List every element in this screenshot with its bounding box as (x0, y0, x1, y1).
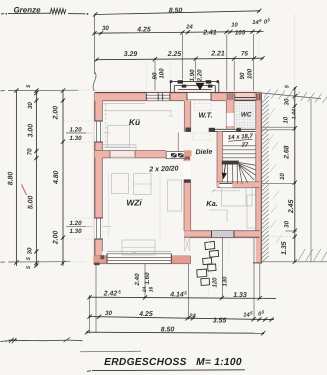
svg-text:90: 90 (151, 72, 158, 79)
window left lower (1.20/1.30) (94, 218, 103, 239)
svg-text:100: 100 (247, 68, 254, 79)
svg-text:Ka.: Ka. (206, 199, 218, 208)
hatch marks bottom band (298, 249, 327, 261)
dimension row 8.50 (top) (95, 11, 260, 15)
extension lines below building (95, 264, 97, 333)
wall stair west (217, 131, 223, 187)
wall wzi/ka divider with door (184, 158, 191, 230)
wzi furniture (109, 172, 182, 255)
svg-text:30: 30 (105, 310, 112, 317)
line above title (80, 350, 141, 353)
svg-text:3.55: 3.55 (213, 317, 227, 324)
sparse hatch marks middle (268, 108, 282, 243)
left chain 2 (5/30/3.00/70/5.00/30/5) (35, 90, 37, 266)
svg-text:1.35: 1.35 (281, 241, 288, 255)
dimension row 3 (3.29 / 2.25 / 2.21 / 75) (96, 58, 263, 60)
svg-text:100: 100 (158, 68, 165, 79)
svg-text:1.33: 1.33 (233, 292, 247, 299)
chimney 2x20/20 (166, 152, 189, 159)
svg-text:130: 130 (222, 276, 229, 287)
ka south window (grey) (212, 231, 235, 237)
svg-text:27: 27 (240, 141, 248, 148)
step blocks (178, 80, 183, 83)
svg-text:30: 30 (102, 25, 109, 32)
window dim 1.20/1.30 (lower left window) (66, 225, 86, 227)
svg-text:24: 24 (188, 312, 196, 319)
hatched strip along right wall (262, 96, 269, 262)
kitchen window in top wall (146, 93, 170, 100)
corner tint top-left (95, 93, 103, 101)
sw corner accents (94, 263, 99, 266)
neighbour edge vertical line (310, 99, 312, 262)
left chain 3 (2.00/4.80/2.00) (62, 90, 64, 266)
svg-text:10: 10 (283, 116, 290, 123)
wc/stair top edge double line (209, 128, 256, 130)
opening kitchen-wzi (110, 151, 135, 158)
svg-text:2.41: 2.41 (202, 30, 217, 37)
dimension row B (30/4.25/24/3.55/145/05) (89, 317, 274, 320)
right chain (5/30/10/1.44/2.68/10/2.45/30/1.35) (294, 88, 296, 262)
svg-text:2.20: 2.20 (197, 69, 204, 83)
svg-text:10: 10 (231, 21, 238, 28)
svg-text:2.45: 2.45 (288, 200, 295, 215)
svg-text:WC: WC (241, 112, 252, 119)
boundary squiggle (50, 9, 66, 15)
dimension row C (8.50 bottom) (87, 332, 264, 333)
stair lower flight (228, 165, 238, 185)
svg-text:10: 10 (279, 173, 286, 180)
stair up arrow (224, 165, 225, 174)
hatch marks top band (264, 89, 327, 103)
diele mat (193, 133, 210, 140)
ka door dim line (214, 190, 241, 192)
red pencil mark (22, 185, 27, 196)
dimension row 2 (4.25 / 24 / 2.41 / 10 / 1.05) (94, 32, 264, 34)
corner tint south-west (94, 256, 108, 263)
wzi south window (107, 254, 171, 264)
svg-text:90: 90 (239, 72, 246, 79)
svg-text:4.25: 4.25 (138, 311, 153, 318)
svg-text:30: 30 (27, 247, 34, 254)
wall top exterior (95, 93, 261, 101)
svg-text:1.20: 1.20 (69, 220, 82, 227)
svg-text:1.90: 1.90 (189, 69, 196, 82)
wf entry mat (195, 104, 212, 111)
svg-text:1.60: 1.60 (144, 272, 151, 285)
entrance steps (171, 80, 219, 82)
wall bottom ka exterior (184, 231, 260, 238)
svg-text:24: 24 (185, 24, 193, 31)
svg-text:8.80: 8.80 (7, 172, 14, 186)
wall wf/kitchen divider (184, 101, 190, 132)
svg-text:120: 120 (212, 277, 219, 288)
ground line bottom right (260, 261, 327, 263)
svg-text:Kü: Kü (129, 117, 140, 127)
left chains bottom connector (8, 261, 70, 263)
extension lines from top rows to building (154, 61, 156, 93)
svg-text:1.20: 1.20 (69, 127, 82, 134)
svg-text:1.30: 1.30 (69, 228, 82, 235)
wall wf/wc divider (226, 101, 234, 129)
boundary line Grenze (top) (1, 13, 4, 15)
svg-text:2.21: 2.21 (210, 51, 225, 58)
wall kitchen/wzi with opening (95, 151, 166, 158)
svg-text:24: 24 (142, 287, 148, 294)
wc door opening (227, 113, 234, 126)
svg-text:4.14: 4.14 (169, 292, 184, 299)
wc window band with hatch (235, 93, 254, 101)
svg-text:30: 30 (283, 98, 290, 105)
ka furniture (209, 188, 256, 228)
window dim 1.20/1.30 (upper left window) (66, 132, 86, 134)
svg-text:2.25: 2.25 (167, 51, 182, 58)
svg-text:5.00: 5.00 (27, 196, 34, 210)
wall ka north (stair south) with door (217, 182, 260, 188)
svg-text:3.00: 3.00 (27, 124, 34, 138)
svg-text:4.80: 4.80 (53, 170, 60, 185)
pink block right of chimney (184, 150, 191, 156)
wall right exterior (256, 93, 261, 263)
entrance door opening in top wall (187, 93, 211, 101)
title underline (92, 369, 245, 372)
left chain 8.80 (15, 90, 17, 266)
svg-text:2.40: 2.40 (134, 273, 141, 287)
window left upper (1.20/1.30) (94, 121, 103, 142)
stair winder treads (239, 163, 256, 185)
svg-text:2 x 20/20: 2 x 20/20 (148, 164, 179, 173)
boundary line bottom (3, 340, 82, 341)
kitchen counters (103, 103, 173, 150)
svg-text:Diele: Diele (195, 148, 212, 157)
svg-text:ERDGESCHOSS M= 1:100: ERDGESCHOSS M= 1:100 (104, 357, 242, 368)
wall left exterior (95, 93, 103, 264)
chimney extension line (177, 133, 179, 152)
wc tiled floor (234, 101, 255, 128)
pink bleed around walls (93, 92, 95, 263)
right chain connector lines (262, 93, 321, 99)
corner tint wzi-se (171, 256, 190, 263)
svg-text:105: 105 (235, 29, 246, 36)
svg-text:2.00: 2.00 (53, 106, 60, 121)
wall bottom wzi exterior (94, 256, 191, 264)
stepping stones path (197, 241, 219, 285)
svg-text:30: 30 (27, 102, 34, 109)
svg-text:8.50: 8.50 (161, 326, 175, 333)
svg-text:3.29: 3.29 (124, 51, 138, 58)
faint upper extension of right chain (294, 14, 296, 87)
stair treads upper flight (223, 145, 256, 147)
svg-text:8.50: 8.50 (169, 7, 183, 14)
extension line left with break symbol (94, 16, 96, 75)
svg-text:4.25: 4.25 (136, 26, 151, 33)
svg-text:W.T.: W.T. (198, 111, 212, 120)
svg-text:2.68: 2.68 (284, 145, 291, 160)
door opening wzi-diele (183, 161, 191, 179)
svg-text:1.30: 1.30 (69, 135, 82, 142)
svg-text:2.42: 2.42 (103, 291, 118, 298)
svg-text:70: 70 (27, 148, 34, 155)
terrace brace (185, 238, 191, 252)
dimension row A (2.425/4.145/1.33) (89, 297, 276, 298)
svg-text:75: 75 (241, 51, 248, 58)
svg-text:30: 30 (284, 220, 291, 227)
svg-text:WZi: WZi (126, 198, 142, 208)
svg-text:2.00: 2.00 (53, 231, 60, 246)
svg-text:16: 16 (148, 287, 154, 293)
stair landing dark bar (222, 161, 239, 165)
entrance direction triangle (195, 83, 204, 90)
svg-text:1.44: 1.44 (291, 109, 297, 120)
left chains top connector (8, 89, 78, 91)
